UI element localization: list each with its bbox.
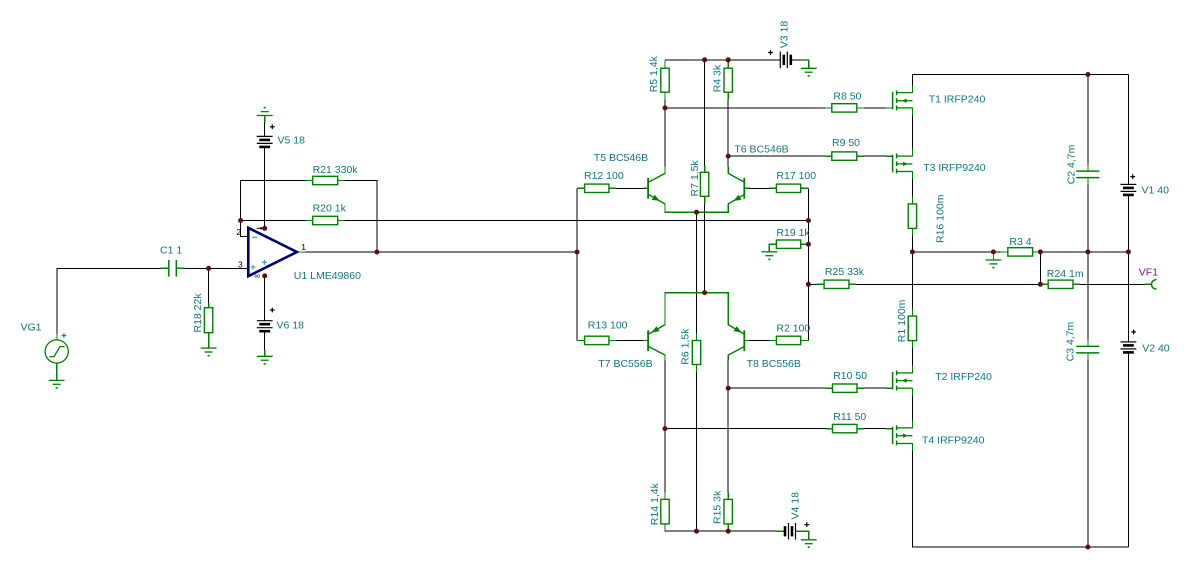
battery V3 [780, 52, 791, 69]
wire T5-T6 emitter row [664, 211, 728, 213]
wire T2 drain stub [911, 365, 913, 373]
svg-text:T1 IRFP240: T1 IRFP240 [929, 94, 986, 106]
svg-text:R5 1,4k: R5 1,4k [648, 55, 660, 92]
wire VG1 bottom stub to ground [56, 363, 58, 380]
wire V3 ground stub [808, 60, 810, 69]
svg-text:R11 50: R11 50 [833, 411, 866, 423]
wire T7-T8 emitter row [664, 292, 728, 294]
wire R20 stubs [306, 220, 313, 222]
mosfet T2 [893, 371, 913, 391]
wire ground to V5 top [264, 123, 266, 137]
wire R6 top stub [696, 334, 698, 341]
wire V5 to op-amp V+ [264, 147, 266, 228]
wire V2 bottom lead [1127, 352, 1129, 547]
wire op-amp output [297, 251, 577, 253]
ground below R18 [201, 348, 217, 356]
node R7 top rail [702, 57, 707, 62]
wire R7 top lead [704, 60, 706, 166]
node C2 top rail [1085, 72, 1090, 77]
resistor R14 [661, 499, 669, 524]
wire C3 bottom stub [1087, 353, 1089, 360]
svg-text:1: 1 [301, 242, 306, 252]
wire R11 to T4 gate [864, 428, 892, 430]
WIRES-BLACK [57, 60, 1145, 547]
wire R10 to T2 gate [864, 387, 892, 389]
transistor T6 [728, 173, 745, 204]
ground below R19 [761, 252, 777, 260]
wire V6 ground stub [264, 350, 266, 356]
wire top rail V3 [665, 59, 781, 61]
wire T2 source to T4 drain [911, 388, 913, 429]
svg-text:R20 1k: R20 1k [313, 202, 347, 214]
node R21 to output [374, 250, 379, 255]
wire T8 collector down [727, 360, 729, 493]
svg-text:T4 IRFP9240: T4 IRFP9240 [922, 434, 985, 446]
wire T5 base stub [644, 187, 648, 189]
svg-text:R8 50: R8 50 [833, 91, 861, 103]
wire R17 stubs [769, 187, 776, 189]
resistor R13 [585, 336, 609, 344]
transistor T5 [647, 173, 665, 204]
wire R16 to node A [911, 229, 913, 253]
wire node to R8 [665, 107, 825, 109]
transistor T7 [647, 325, 665, 356]
wire T4 bottom stub [911, 443, 913, 451]
svg-text:V4 18: V4 18 [790, 492, 802, 520]
source VG1 [45, 340, 68, 363]
wire bottom rail [912, 546, 1128, 548]
resistor R16 [908, 204, 916, 229]
resistor R5 [661, 68, 669, 92]
wire T6 emitter vertical [727, 204, 729, 212]
wire T4 top stub [911, 420, 913, 428]
wire op-amp pin2 lead [241, 221, 249, 237]
wire mid rail node A to R3 [912, 251, 1001, 253]
resistor R2 [776, 336, 800, 344]
wire T6 base stub [745, 187, 750, 189]
svg-text:C2 4,7m: C2 4,7m [1065, 144, 1077, 184]
wire node A to R1 [911, 252, 913, 316]
wire T7 emitter vertical [664, 293, 666, 325]
node R6 bottom [694, 529, 699, 534]
wire R13 to T7 base [616, 339, 644, 341]
wire node to R14 [664, 429, 666, 493]
wire C2 bottom lead [1087, 184, 1089, 252]
resistor R6 [692, 341, 700, 365]
node mid ground junction [991, 249, 996, 254]
node T8/R10 [726, 386, 731, 391]
wire R7 top stub [704, 165, 706, 172]
transistor T8 [728, 325, 745, 356]
resistor R8 [832, 104, 857, 112]
node C3 bottom rail [1085, 545, 1090, 550]
wire T5 collector stub [664, 167, 666, 174]
resistor R9 [832, 152, 857, 160]
op-amp minus sign [252, 236, 257, 238]
battery V1 plus [1130, 174, 1135, 179]
wire VG1 to C1 [57, 267, 162, 269]
wire R21 right to feedback vertical [344, 180, 377, 182]
mosfet T1 [893, 90, 913, 110]
battery V5 plus [270, 124, 275, 129]
svg-text:R15 3k: R15 3k [712, 490, 724, 524]
wire R13 stubs [577, 339, 585, 341]
svg-text:T6 BC546B: T6 BC546B [734, 143, 788, 155]
wire node to R9 [728, 155, 825, 157]
node output to R12/R13 [575, 250, 580, 255]
wire T4 gate stub [886, 428, 893, 430]
wire R24 to VF1 [1080, 283, 1145, 285]
capacitor C3 [1076, 346, 1099, 353]
wire mosfet bus T1 source to T3 [911, 108, 913, 157]
wire T6 collector stub [727, 167, 729, 174]
svg-text:R9 50: R9 50 [832, 137, 860, 149]
wire C3 bottom lead [1087, 360, 1089, 547]
svg-text:T7 BC556B: T7 BC556B [598, 358, 652, 370]
wire R9 to T3 gate [864, 155, 892, 157]
wire R16 stubs [911, 196, 913, 204]
wire R7 bottom stub [704, 196, 706, 204]
node T7-T8 emitters/R7 [702, 290, 707, 295]
wire R25 to R24 node [856, 283, 1041, 285]
svg-text:R6 1,5k: R6 1,5k [680, 328, 692, 365]
wire drive vertical R12/R13 [576, 188, 578, 340]
svg-text:R3 4: R3 4 [1009, 236, 1031, 248]
wire T3 bottom stub [911, 171, 913, 179]
wire U1 output stub [298, 251, 306, 253]
wire R4 bottom stub [727, 92, 729, 100]
resistor R1 [908, 316, 916, 341]
wire R14 stubs [664, 492, 666, 499]
node R19 junction [806, 242, 811, 247]
svg-text:R19 1k: R19 1k [776, 227, 810, 239]
wire VG1 top vertical [56, 268, 58, 334]
svg-text:C1 1: C1 1 [160, 245, 182, 257]
svg-text:R24 1m: R24 1m [1047, 268, 1084, 280]
node R17/R19 drive [806, 218, 811, 223]
wire C3 top stub [1087, 339, 1089, 346]
battery V6 [257, 321, 273, 332]
wire R25 stubs [817, 283, 824, 285]
svg-text:R7 1,5k: R7 1,5k [689, 160, 701, 197]
resistor R25 [824, 280, 849, 288]
wire V1 top lead [1127, 75, 1129, 185]
op-amp supply arrow mark [257, 227, 265, 230]
node feedback junction [238, 218, 243, 223]
wire R17 node vertical [807, 188, 809, 341]
wire T6 base black mid [750, 187, 770, 189]
wire T8 node to R10 [728, 387, 826, 389]
node R3/C branch [1038, 249, 1043, 254]
wire VF1 stub [1144, 283, 1152, 285]
capacitor C1 [169, 260, 177, 277]
svg-text:V3 18: V3 18 [778, 21, 790, 49]
resistor R21 [313, 176, 338, 184]
svg-text:R14 1,4k: R14 1,4k [649, 482, 661, 525]
wire R1 stubs [911, 309, 913, 317]
svg-text:R12 100: R12 100 [584, 170, 624, 182]
wire R7 bottom lead [704, 203, 706, 292]
wire R21 left [240, 180, 306, 182]
node R4 top rail [726, 57, 731, 62]
wire node to R18 [208, 268, 210, 303]
svg-text:R2 100: R2 100 [776, 323, 810, 335]
battery V2 plus [1131, 330, 1136, 335]
GREEN-LEADS [57, 60, 1152, 540]
node R5/R8/T5 [663, 105, 668, 110]
wire mosfet bus T3 to R16 [911, 171, 913, 204]
wire R8 stubs [825, 107, 832, 109]
ground right of V3 [801, 68, 817, 76]
resistor R11 [833, 424, 858, 432]
svg-text:C3 4,7m: C3 4,7m [1065, 321, 1077, 361]
wire node to T6 collector [727, 156, 729, 167]
wire T2 source stub [911, 388, 913, 396]
wire R5 top stub [664, 60, 666, 69]
wire R5 bottom stub [664, 92, 666, 100]
wire R9 stubs [825, 155, 832, 157]
wire bottom row to V4 [665, 530, 778, 532]
svg-text:R18 22k: R18 22k [192, 293, 204, 333]
svg-text:U1 LME49860: U1 LME49860 [294, 270, 361, 282]
capacitor C2 [1076, 171, 1099, 178]
wire V5 ground stub [264, 116, 266, 124]
wire VG1 top stub [56, 334, 58, 341]
wire V6 to ground [264, 331, 266, 351]
battery V2 [1121, 342, 1137, 353]
wire mid ground stub [992, 252, 994, 260]
wire R19 left lead to ground [769, 244, 776, 252]
battery V3 plus [768, 50, 773, 55]
wire top rail [912, 74, 1128, 76]
resistor R19 [776, 240, 800, 248]
battery V1 [1121, 184, 1137, 195]
wire C2 bottom stub [1087, 178, 1089, 185]
battery V4 [785, 523, 796, 540]
wire R4 bottom to node [727, 99, 729, 156]
svg-text:R17 100: R17 100 [776, 170, 816, 182]
wire mosfet bus T1 drain to rail [911, 75, 913, 94]
wire R18 top stub [208, 303, 210, 308]
resistor R12 [585, 184, 609, 192]
svg-text:R1 100m: R1 100m [896, 299, 908, 342]
wire V1 bottom lead [1127, 195, 1129, 252]
wire feedback vertical to output [376, 180, 378, 252]
wire R20 left [241, 220, 306, 222]
node T5-T6 emitters/R6 [694, 210, 699, 215]
wire T3 top stub [911, 149, 913, 157]
wire V4 left stub [777, 530, 785, 532]
svg-text:T8 BC556B: T8 BC556B [747, 358, 801, 370]
wire V3 right to ground corner [791, 59, 809, 61]
wire R8 to T1 gate [864, 107, 892, 109]
svg-text:V5 18: V5 18 [278, 134, 306, 146]
wire C1 left stub [161, 267, 169, 269]
mosfet T3 [893, 154, 913, 174]
wire node to T5 collector [664, 108, 666, 167]
wire R6 bottom stub [696, 364, 698, 372]
node V1/V2 mid [1126, 249, 1131, 254]
wire T2 gate stub [886, 387, 893, 389]
wire R18 bottom stub to ground [208, 333, 210, 349]
resistor R17 [776, 184, 800, 192]
op-amp U1 triangle [248, 228, 297, 276]
svg-text:R10 50: R10 50 [833, 370, 867, 382]
ground below V6 [257, 356, 273, 364]
svg-text:V1 40: V1 40 [1142, 185, 1170, 197]
wire R21 stubs [306, 180, 313, 182]
wire op-amp V- to V6 [264, 276, 266, 321]
wire T1 gate stub [886, 107, 893, 109]
wire C3 top lead [1087, 252, 1089, 340]
svg-text:V2 40: V2 40 [1142, 342, 1170, 354]
wire V4 right lead to ground corner [796, 531, 809, 540]
svg-text:R13 100: R13 100 [588, 320, 628, 332]
wire T3 gate stub [886, 155, 893, 157]
svg-text:∞: ∞ [254, 272, 260, 281]
wire C2 top stub [1087, 164, 1089, 171]
node C1/R18 junction [206, 266, 211, 271]
wire R6 top lead [696, 212, 698, 334]
wire T8 collector stub [727, 355, 729, 361]
wire R24 stubs [1041, 283, 1048, 285]
wire V2 top lead [1127, 252, 1129, 342]
svg-text:R4 3k: R4 3k [712, 64, 724, 92]
mosfet T4 [893, 425, 913, 445]
svg-text:VF1: VF1 [1139, 267, 1158, 279]
node output/R24 [1038, 282, 1043, 287]
wire T5 emitter vertical [664, 204, 666, 212]
resistor R7 [700, 172, 708, 196]
op-amp plus sign inner [262, 260, 267, 265]
wire R15 stubs [727, 492, 729, 499]
svg-text:R16 100m: R16 100m [934, 194, 946, 243]
svg-text:R21 330k: R21 330k [313, 164, 359, 176]
wire R3 node down to output [1039, 252, 1041, 284]
resistor R15 [724, 499, 732, 524]
wire R11 stubs [825, 428, 832, 430]
resistor R24 [1048, 280, 1073, 288]
wire R2 stubs [769, 339, 776, 341]
svg-text:2: 2 [236, 227, 241, 237]
battery V4 plus [804, 522, 809, 527]
wire R5 bottom to node [664, 99, 666, 108]
ground mid rail [986, 260, 1002, 268]
node U1 V+ pin [262, 226, 267, 231]
wire T7 collector down [664, 360, 666, 429]
wire T8 base stub [745, 339, 750, 341]
node A R16/R1 [910, 249, 915, 254]
ground right of V4 [801, 540, 817, 548]
node R15 bottom [726, 529, 731, 534]
VG1 plus sign [62, 333, 67, 338]
wire R19 right stub [801, 243, 809, 245]
wire R3 stubs [1001, 251, 1008, 253]
node U1 V- pin [262, 273, 267, 278]
wire T1 source stub [911, 108, 913, 116]
node T7/R14/R11 [663, 426, 668, 431]
svg-text:T3 IRFP9240: T3 IRFP9240 [923, 162, 986, 174]
wire C2 top lead [1087, 75, 1089, 165]
wire T4 source to bottom rail [911, 443, 913, 547]
node R25/R2 junction [806, 282, 811, 287]
wire drive long horizontal R20 to R17 node [344, 220, 808, 222]
svg-text:R25 33k: R25 33k [825, 266, 865, 278]
VF1 output pin [1152, 280, 1157, 290]
wire R4 top stub [727, 60, 729, 69]
svg-text:T5 BC546B: T5 BC546B [594, 152, 648, 164]
op-amp plus sign pin3 [251, 265, 256, 270]
wire R3 right to supply mid rail [1040, 251, 1129, 253]
node R4/R9/T6 [726, 154, 731, 159]
wire T7 base stub [644, 339, 648, 341]
wire lower gate rail to R11 [665, 428, 826, 430]
wire R6 bottom lead [696, 372, 698, 532]
battery V6 plus [270, 308, 275, 313]
resistor R3 [1008, 248, 1033, 256]
wire R10 stubs [825, 387, 832, 389]
battery V5 [257, 136, 273, 147]
ground above V5 (inverted) [257, 107, 273, 116]
wire R1 to T2 drain [911, 341, 913, 374]
svg-text:3: 3 [238, 259, 243, 269]
svg-text:T2 IRFP240: T2 IRFP240 [935, 371, 992, 383]
resistor R20 [313, 216, 338, 224]
wire R25 left black [808, 283, 817, 285]
node C2/C3 mid [1085, 249, 1090, 254]
resistor R4 [724, 68, 732, 92]
wire T1 drain stub [911, 86, 913, 94]
svg-text:VG1: VG1 [21, 322, 42, 334]
wire T8 emitter vertical [727, 293, 729, 325]
wire C1 to op-amp pin3 [184, 267, 248, 269]
wire feedback node up to R21 row [240, 181, 242, 222]
wire R12 stubs [577, 187, 585, 189]
resistor R18 [204, 308, 212, 333]
wire R12 to T5 base [616, 187, 644, 189]
wire T8 base black mid [750, 339, 770, 341]
ground below VG1 [49, 380, 65, 388]
resistor R10 [833, 384, 858, 392]
wire C1 right stub [176, 267, 184, 269]
svg-text:V6 18: V6 18 [277, 319, 305, 331]
wire T7 collector stub [664, 355, 666, 361]
